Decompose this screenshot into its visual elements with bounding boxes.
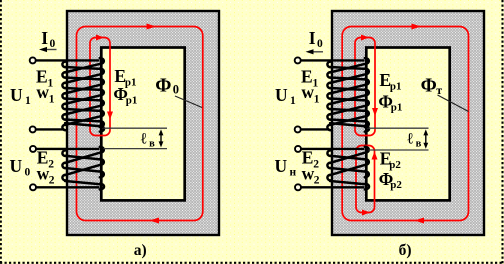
svg-text:б): б) (399, 242, 412, 259)
svg-text:w: w (302, 164, 315, 184)
svg-text:U: U (275, 85, 288, 105)
svg-text:w: w (36, 82, 49, 102)
svg-text:w: w (301, 82, 314, 102)
svg-text:0: 0 (317, 38, 323, 50)
svg-text:1: 1 (49, 93, 55, 105)
svg-text:т: т (436, 83, 442, 97)
svg-text:ℓ: ℓ (141, 130, 147, 147)
svg-text:0: 0 (25, 167, 31, 179)
svg-text:w: w (37, 164, 50, 184)
svg-text:2: 2 (314, 174, 320, 186)
svg-text:а): а) (134, 242, 147, 259)
svg-text:I: I (41, 28, 48, 48)
svg-text:Φ: Φ (421, 76, 437, 97)
svg-text:U: U (10, 156, 23, 176)
svg-text:U: U (10, 85, 23, 105)
svg-text:0: 0 (173, 83, 179, 97)
svg-text:p1: p1 (126, 94, 138, 106)
svg-text:1: 1 (25, 95, 31, 107)
svg-text:н: н (290, 167, 297, 179)
svg-text:Φ: Φ (155, 76, 171, 97)
svg-text:в: в (416, 138, 422, 149)
svg-text:0: 0 (50, 38, 56, 50)
svg-text:1: 1 (290, 95, 296, 107)
svg-text:U: U (275, 156, 288, 176)
svg-text:в: в (149, 138, 155, 149)
svg-text:I: I (309, 28, 316, 48)
svg-text:ℓ: ℓ (407, 130, 413, 147)
svg-text:2: 2 (49, 174, 55, 186)
svg-text:p1: p1 (391, 102, 403, 114)
svg-text:1: 1 (314, 93, 320, 105)
svg-text:p2: p2 (390, 179, 402, 191)
